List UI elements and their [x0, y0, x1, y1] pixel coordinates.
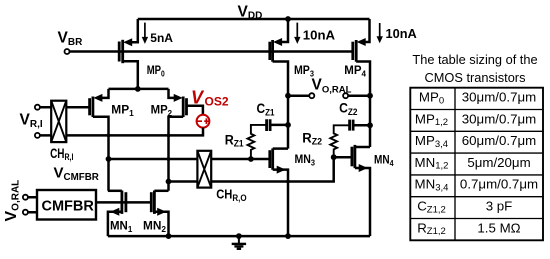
block CMFBR [37, 190, 96, 220]
node dot B output right [367, 93, 373, 99]
node dot first stage out+ [106, 156, 112, 162]
wire output left to terminal [288, 94, 309, 97]
wire CMFBR output to MN1 MN2 gates [96, 201, 151, 204]
svg-text:10nA: 10nA [303, 28, 336, 43]
svg-text:30μm/0.7μm: 30μm/0.7μm [462, 111, 536, 126]
capacitor CZ2 [339, 101, 370, 131]
transistor MP2 [151, 89, 187, 191]
capacitor CZ1 [257, 101, 289, 131]
wire VOS2 bottom to input chopper [66, 128, 203, 136]
svg-text:The table sizing of the: The table sizing of the [412, 52, 537, 67]
node VO,RAL left terminal [309, 93, 314, 98]
svg-text:CMFBR: CMFBR [42, 199, 95, 215]
wire MP1 gate from chopper [66, 106, 89, 109]
wire VBR bias line [69, 50, 353, 53]
wire crossing bumps [107, 134, 111, 138]
transistor MP3 [270, 19, 314, 149]
chopper CHR,O [197, 151, 246, 203]
node dot CZ2 at node B [367, 122, 373, 128]
transistor MN2 [143, 191, 169, 237]
wire to output chopper bottom left [169, 180, 198, 183]
node VO,RAL right terminal [343, 93, 348, 98]
current arrow 10nA first [294, 23, 335, 44]
node dot on VDD rail at MP3 source [285, 16, 291, 22]
wire chopper bottom right to MN4 gate riser [211, 157, 334, 181]
svg-text:30μm/0.7μm: 30μm/0.7μm [462, 90, 536, 105]
node dot MN2 source [166, 233, 172, 239]
svg-text:V: V [191, 88, 205, 108]
node dot RZ1 bottom [248, 156, 254, 162]
transistor MN3 [270, 148, 315, 236]
source VOS2 offset voltage [191, 88, 229, 128]
svg-text:CMOS transistors: CMOS transistors [425, 70, 526, 85]
wire chopper top right to MN3 gate [211, 158, 270, 161]
svg-text:5μm/20μm: 5μm/20μm [467, 155, 530, 170]
wire VDD rail [138, 18, 370, 21]
current arrow 5nA [142, 23, 174, 45]
resistor RZ1 [225, 125, 266, 159]
transistor MN4 [334, 145, 394, 236]
transistor MP4 [344, 19, 370, 147]
current arrow 10nA second [377, 23, 417, 43]
node dot first stage out- [166, 179, 172, 185]
chopper CHR,I [50, 101, 73, 163]
svg-text:10nA: 10nA [386, 26, 417, 41]
node dot A output left [285, 93, 291, 99]
wire MP2 gate to VOS2 [187, 106, 203, 115]
svg-text:60μm/0.7μm: 60μm/0.7μm [462, 133, 536, 148]
node dot ground tap [236, 233, 242, 239]
ground symbol [232, 236, 246, 249]
svg-text:5nA: 5nA [150, 31, 173, 45]
node VBR terminal [65, 49, 70, 54]
transistor MN1 [108, 191, 133, 237]
svg-text:3 pF: 3 pF [486, 199, 513, 214]
svg-text:1.5 MΩ: 1.5 MΩ [477, 220, 520, 235]
node dot CZ1 at node A [285, 122, 291, 128]
svg-text:0.7μm/0.7μm: 0.7μm/0.7μm [460, 177, 538, 192]
node tail: dot below MP0 [135, 86, 141, 92]
transistor MP0 [119, 19, 165, 89]
wire terminal to node B [348, 94, 370, 97]
svg-text:OS2: OS2 [205, 95, 229, 109]
node CMFBR input terminals [23, 195, 37, 215]
wire diff pair tail rail [109, 88, 169, 91]
wire bottom ground rail [108, 235, 370, 238]
wire to output chopper top left [109, 158, 198, 161]
node dot MN3 source [285, 233, 291, 239]
resistor RZ2 [302, 125, 348, 157]
transistor MP1 [90, 89, 134, 191]
node dot RZ2 bottom [331, 154, 337, 160]
table sizing of CMOS transistors [410, 88, 543, 241]
node VR,I input terminals [20, 105, 52, 138]
